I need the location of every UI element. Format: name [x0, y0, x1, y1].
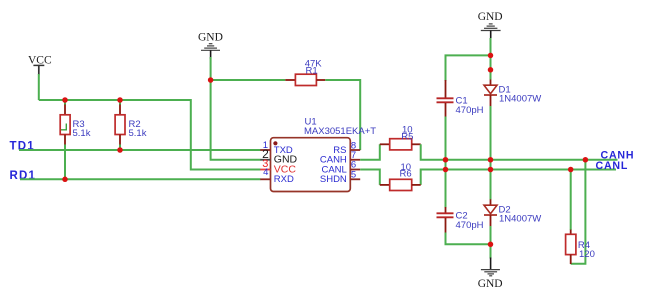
wire GND to R1 [211, 79, 286, 81]
svg-text:SHDN: SHDN [320, 174, 347, 185]
wire CANL to D2 [490, 170, 492, 200]
wire C1 to CANH [445, 117, 447, 160]
pin 6 CANL [321, 160, 360, 176]
pin 5 SHDN [320, 170, 360, 186]
svg-text:5.1k: 5.1k [129, 128, 147, 139]
pin 2 GND [260, 147, 297, 166]
resistor R4 120 [566, 230, 595, 264]
ground GND top-right [478, 11, 503, 39]
svg-text:5.1k: 5.1k [73, 128, 91, 139]
svg-text:470pH: 470pH [456, 105, 484, 116]
power port VCC [28, 55, 52, 76]
node junction GND-C1 [488, 53, 494, 59]
wire CANL to C2 [445, 170, 447, 208]
svg-text:1N4007W: 1N4007W [499, 93, 541, 104]
pin 1 TXD [260, 140, 293, 156]
wire TD1 to pin1 [19, 149, 261, 151]
svg-text:5: 5 [351, 170, 356, 181]
diode D1 1N4007W [484, 80, 541, 108]
pin 8 RS [333, 140, 360, 156]
svg-text:MAX3051EKA+T: MAX3051EKA+T [304, 126, 376, 137]
wire CANH-CANL crossover at D column [490, 160, 492, 170]
wire RD1 to pin4 [20, 178, 261, 180]
node junction R2-TD1 [117, 147, 123, 153]
svg-text:R1: R1 [306, 65, 318, 76]
resistor R3 5.1k [60, 100, 91, 145]
wire C2 to GND loop [446, 233, 491, 245]
svg-text:R5: R5 [401, 132, 413, 143]
wire CANL to R4 [570, 170, 572, 231]
IC U1 MAX3051EKA+T CAN transceiver [271, 116, 377, 191]
node junction D2-CANL [488, 167, 494, 173]
pin 4 RXD [260, 167, 294, 185]
wire GND to D1 column [490, 38, 492, 80]
pin 7 CANH [320, 150, 360, 166]
wire R6 to CANL net [421, 170, 616, 185]
wire VCC rail to pin3 [39, 100, 261, 170]
wire pin6 to R6 [360, 170, 380, 185]
node junction CANL-R4 [568, 167, 574, 173]
ground GND bottom [478, 258, 503, 291]
svg-text:GND: GND [478, 278, 503, 290]
wire R3 to RD1 [64, 145, 66, 180]
node junction VCC-R3 [62, 97, 68, 103]
wire D2 to GND [490, 226, 492, 244]
wire CANH to CANL crossover [445, 160, 447, 170]
wire to bottom ground [490, 244, 492, 258]
node junction C2-D2-GND [488, 242, 494, 248]
node junction D1-CANH [488, 157, 494, 163]
wire R1 to pin8 [325, 80, 360, 150]
node junction GND-R1 [208, 77, 214, 83]
node junction VCC-R2 [117, 97, 123, 103]
resistor R1 47K [285, 58, 325, 85]
wire R5 to CANH net [421, 144, 618, 159]
capacitor C1 470pH [437, 80, 484, 117]
node junction C1-CANH [443, 157, 449, 163]
svg-text:R6: R6 [400, 168, 412, 179]
wire GND column to pin2 [211, 57, 261, 160]
svg-text:470pH: 470pH [456, 220, 484, 231]
svg-text:RXD: RXD [274, 174, 294, 185]
resistor R5 10 [380, 124, 421, 150]
resistor R6 10 [380, 162, 421, 190]
ground GND top-center [198, 32, 223, 59]
node junction D1 top [488, 67, 494, 73]
wire R2 to TD1 [119, 145, 121, 151]
pin 3 VCC [260, 158, 296, 176]
svg-text:GND: GND [478, 11, 503, 23]
svg-text:4: 4 [263, 167, 268, 178]
wire pin7 to R5 [360, 144, 380, 159]
svg-text:1N4007W: 1N4007W [499, 213, 541, 224]
diode D2 1N4007W [484, 199, 541, 227]
svg-text:CANL: CANL [596, 160, 629, 172]
node junction C2-CANL [443, 167, 449, 173]
wire R4 loop to CANH [571, 160, 586, 264]
svg-text:GND: GND [198, 32, 223, 44]
resistor R2 5.1k [115, 100, 147, 145]
wire GND to C1 [446, 55, 491, 81]
wire D1 to CANH [490, 106, 492, 160]
capacitor C2 470pH [437, 207, 484, 233]
node junction R3-RD1 [62, 177, 68, 183]
node junction R4-CANH [583, 157, 589, 163]
wire VCC vertical [38, 74, 40, 100]
svg-text:120: 120 [579, 249, 595, 260]
